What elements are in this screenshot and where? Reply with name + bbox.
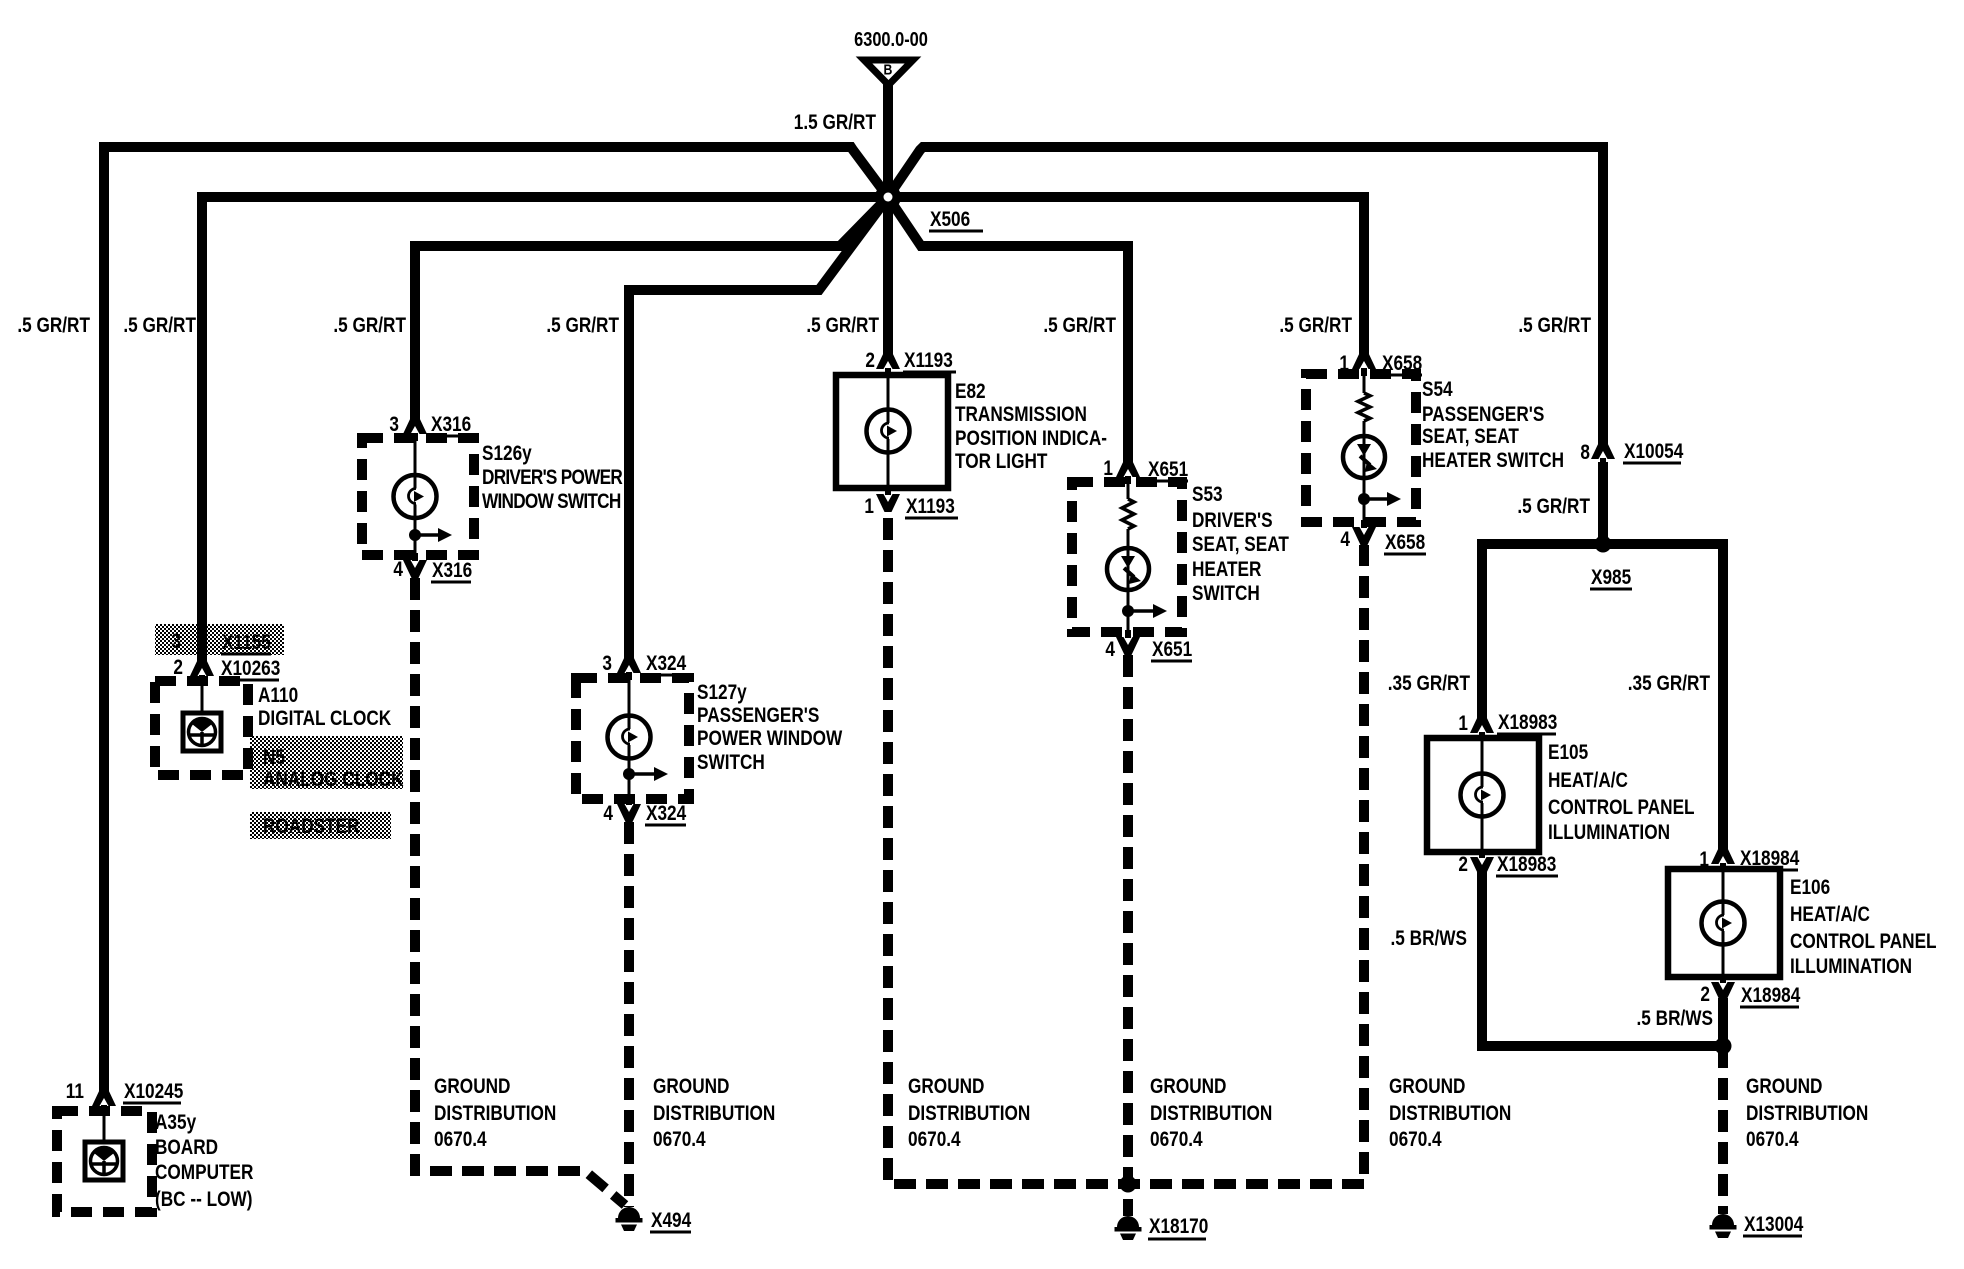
connector pin 4 X316 (bottom of S126y) (403, 560, 427, 578)
switch contact arrow S127y (623, 768, 635, 780)
svg-text:X324: X324 (646, 803, 686, 826)
wire splice to S126y (left, y246) (415, 197, 888, 420)
svg-text:3: 3 (171, 631, 181, 654)
svg-text:DISTRIBUTION: DISTRIBUTION (434, 1103, 556, 1126)
svg-text:ROADSTER: ROADSTER (263, 816, 360, 839)
svg-text:.5 GR/RT: .5 GR/RT (123, 315, 196, 338)
svg-text:X18984: X18984 (1741, 985, 1801, 1008)
svg-text:.5 GR/RT: .5 GR/RT (1518, 315, 1591, 338)
svg-text:8: 8 (1580, 442, 1590, 465)
svg-text:X10245: X10245 (124, 1081, 184, 1104)
svg-text:0670.4: 0670.4 (653, 1129, 706, 1152)
svg-text:DRIVER'S POWER: DRIVER'S POWER (482, 467, 623, 490)
switch S127y dashed box (576, 678, 689, 799)
svg-text:X1155: X1155 (222, 632, 271, 655)
highlight band ROADSTER (250, 812, 391, 839)
svg-text:X985: X985 (1591, 567, 1631, 590)
lamp unit E82 solid box (836, 375, 948, 488)
svg-text:.35 GR/RT: .35 GR/RT (1628, 673, 1710, 696)
connector pin 1 X1193 (bottom of E82) (876, 494, 900, 512)
connector pin 1 X658 (top of S54) (1352, 351, 1376, 369)
svg-text:GROUND: GROUND (1389, 1076, 1466, 1099)
switch S126y dashed box (362, 438, 474, 555)
svg-text:POSITION INDICA-: POSITION INDICA- (955, 428, 1107, 451)
svg-text:2: 2 (1458, 854, 1468, 877)
connector pin 11 X10245 (92, 1088, 116, 1106)
svg-text:X651: X651 (1152, 639, 1192, 662)
wire splice to S127y (left, y290) (629, 197, 888, 659)
svg-text:DISTRIBUTION: DISTRIBUTION (1746, 1103, 1868, 1126)
svg-text:GROUND: GROUND (1746, 1076, 1823, 1099)
svg-text:N5: N5 (263, 747, 285, 770)
wire splice X985 horizontal (1482, 539, 1723, 549)
svg-text:COMPUTER: COMPUTER (155, 1162, 254, 1185)
svg-text:SWITCH: SWITCH (1192, 583, 1260, 606)
svg-text:ILLUMINATION: ILLUMINATION (1548, 822, 1670, 845)
connector pin 1 X18984 (top of E106) (1711, 846, 1735, 864)
connector pin 2 X1193 (top of E82) (876, 351, 900, 369)
svg-text:ILLUMINATION: ILLUMINATION (1790, 956, 1912, 979)
svg-text:A110: A110 (258, 685, 298, 708)
svg-text:X18983: X18983 (1498, 712, 1557, 735)
switch S54 dashed box (1306, 374, 1416, 522)
svg-text:DISTRIBUTION: DISTRIBUTION (1389, 1103, 1511, 1126)
lamp in S127y (608, 716, 651, 759)
wire .5 GR/RT X10054 to splice X985 (1598, 462, 1608, 544)
power feed triangle B (864, 60, 913, 85)
svg-text:SWITCH: SWITCH (697, 752, 765, 775)
splice X506 junction (875, 184, 901, 210)
svg-text:S53: S53 (1192, 484, 1223, 507)
svg-text:.5 BR/WS: .5 BR/WS (1637, 1008, 1714, 1031)
wire inside E82 (887, 375, 890, 488)
ground wire from S127y pin 4 to X494 (624, 822, 634, 1207)
wire inside A35y (103, 1111, 106, 1142)
svg-text:BOARD: BOARD (155, 1137, 218, 1160)
svg-text:PASSENGER'S: PASSENGER'S (697, 705, 820, 728)
svg-text:A35y: A35y (155, 1112, 196, 1135)
svg-text:S127y: S127y (697, 682, 747, 705)
svg-text:1.5 GR/RT: 1.5 GR/RT (794, 112, 876, 135)
svg-text:DIGITAL CLOCK: DIGITAL CLOCK (258, 708, 391, 731)
lamp unit E106 solid box (1668, 869, 1780, 977)
ground X494 (618, 1207, 640, 1218)
wire .5 BR/WS E105 to junction (1482, 871, 1723, 1046)
switch contact arrow S54 (1358, 493, 1370, 505)
board computer A35y dashed box (57, 1111, 152, 1212)
svg-text:DISTRIBUTION: DISTRIBUTION (1150, 1103, 1272, 1126)
svg-text:2: 2 (1700, 984, 1710, 1007)
ground X18170 (1117, 1216, 1139, 1227)
wire splice to digital clock (left, y197) (202, 197, 888, 662)
svg-text:S54: S54 (1422, 379, 1453, 402)
svg-text:E106: E106 (1790, 877, 1830, 900)
wire inside S127y (628, 678, 631, 799)
svg-text:X18170: X18170 (1149, 1216, 1208, 1239)
svg-text:2: 2 (865, 350, 875, 373)
svg-text:PASSENGER'S: PASSENGER'S (1422, 404, 1545, 427)
svg-text:4: 4 (1340, 529, 1350, 552)
svg-text:.5 BR/WS: .5 BR/WS (1391, 928, 1468, 951)
svg-text:CONTROL PANEL: CONTROL PANEL (1790, 931, 1937, 954)
lamp in E82 (867, 410, 910, 453)
wire splice to board computer (left, y147) (104, 147, 888, 1092)
svg-text:GROUND: GROUND (908, 1076, 985, 1099)
clock A110 dashed box (155, 681, 248, 775)
svg-text:X1193: X1193 (906, 496, 955, 519)
svg-text:X506: X506 (930, 209, 970, 232)
svg-text:1: 1 (864, 496, 874, 519)
svg-text:TOR LIGHT: TOR LIGHT (955, 451, 1048, 474)
ground X13004 (1712, 1214, 1734, 1225)
svg-text:E105: E105 (1548, 742, 1588, 765)
ground wire from E82 pin 1 (888, 518, 1364, 1184)
svg-text:X18983: X18983 (1497, 854, 1556, 877)
connector pin 2 X18983 (bottom of E105) (1470, 857, 1494, 875)
svg-text:.5 GR/RT: .5 GR/RT (333, 315, 406, 338)
svg-text:CONTROL PANEL: CONTROL PANEL (1548, 797, 1695, 820)
connector pin 4 X324 (bottom of S127y) (617, 804, 641, 822)
wire splice to S53 (right, y246) (888, 197, 1128, 463)
svg-text:S126y: S126y (482, 443, 532, 466)
svg-text:SEAT, SEAT: SEAT, SEAT (1422, 426, 1519, 449)
svg-text:(BC -- LOW): (BC -- LOW) (155, 1189, 252, 1212)
svg-text:X13004: X13004 (1744, 1214, 1804, 1237)
connector pin 3 X324 (top of S127y) (617, 655, 641, 673)
clock icon A110 (183, 713, 221, 751)
svg-text:3: 3 (602, 653, 612, 676)
svg-text:WINDOW SWITCH: WINDOW SWITCH (482, 491, 621, 514)
svg-text:0670.4: 0670.4 (1746, 1129, 1799, 1152)
svg-text:GROUND: GROUND (653, 1076, 730, 1099)
svg-text:.5 GR/RT: .5 GR/RT (1517, 496, 1590, 519)
connector pin 2 X18984 (bottom of E106) (1711, 982, 1735, 1000)
svg-text:TRANSMISSION: TRANSMISSION (955, 404, 1087, 427)
wire inside E105 (1481, 738, 1484, 852)
svg-text:.5 GR/RT: .5 GR/RT (546, 315, 619, 338)
switch contact arrow S126y (409, 529, 421, 541)
svg-text:B: B (884, 61, 893, 77)
svg-text:POWER WINDOW: POWER WINDOW (697, 728, 843, 751)
connector pin 4 X651 (bottom of S53) (1116, 637, 1140, 655)
svg-text:HEATER: HEATER (1192, 559, 1262, 582)
wire splice to E82 (down) (883, 197, 893, 357)
svg-text:X10054: X10054 (1624, 441, 1684, 464)
resistor in S54 (1358, 393, 1370, 421)
svg-text:4: 4 (393, 559, 403, 582)
lamp in E106 (1702, 902, 1745, 945)
svg-text:HEATER SWITCH: HEATER SWITCH (1422, 450, 1564, 473)
resistor in S53 (1122, 499, 1134, 529)
svg-text:GROUND: GROUND (1150, 1076, 1227, 1099)
junction dot BR/WS net (1715, 1038, 1732, 1055)
clock icon A35y (85, 1142, 123, 1180)
svg-text:.35 GR/RT: .35 GR/RT (1388, 673, 1470, 696)
connector pin 4 X658 (bottom of S54) (1352, 527, 1376, 545)
svg-text:X1193: X1193 (904, 350, 953, 373)
connector pin 8 X10054 (1591, 441, 1615, 459)
lamp in S126y (394, 475, 437, 518)
connector pin 2 X10263 (190, 658, 214, 676)
junction dot ground net X18170 (1120, 1176, 1137, 1193)
svg-text:GROUND: GROUND (434, 1076, 511, 1099)
svg-text:SEAT, SEAT: SEAT, SEAT (1192, 534, 1289, 557)
wire E106 pin 2 to junction (1718, 998, 1728, 1046)
svg-text:X494: X494 (651, 1210, 691, 1233)
wire inside S54 (1363, 374, 1366, 522)
lamp unit E105 solid box (1427, 738, 1539, 852)
highlight band connector 3 X1155 (155, 624, 284, 655)
connector pin 1 X651 (top of S53) (1116, 459, 1140, 477)
indicator lamp in S54 (1343, 436, 1385, 478)
svg-text:.5 GR/RT: .5 GR/RT (1279, 315, 1352, 338)
svg-text:X316: X316 (432, 560, 472, 583)
svg-text:X324: X324 (646, 653, 686, 676)
svg-text:E82: E82 (955, 381, 986, 404)
lamp in E105 (1461, 774, 1504, 817)
wire splice to S54 (right, y197) (888, 197, 1364, 355)
svg-text:0670.4: 0670.4 (434, 1129, 487, 1152)
svg-text:0670.4: 0670.4 (908, 1129, 961, 1152)
highlight band N5 ANALOG CLOCK (250, 736, 403, 789)
wire X985 to E106 (1718, 539, 1728, 849)
wire splice to X10054 (right, y147) (888, 147, 1603, 444)
svg-text:6300.0-00: 6300.0-00 (854, 27, 928, 50)
ground wire from S126y pin 4 (415, 578, 625, 1205)
ground wire from BR/WS junction to X13004 (1718, 1046, 1728, 1214)
svg-text:.5 GR/RT: .5 GR/RT (17, 315, 90, 338)
wire 1.5 GR/RT from fuse B down to splice (883, 84, 893, 197)
svg-text:X658: X658 (1385, 532, 1425, 555)
svg-text:ANALOG CLOCK: ANALOG CLOCK (263, 769, 404, 792)
wire inside E106 (1722, 869, 1725, 977)
svg-text:1: 1 (1458, 713, 1468, 736)
svg-text:0670.4: 0670.4 (1150, 1129, 1203, 1152)
svg-text:4: 4 (1105, 639, 1115, 662)
svg-text:HEAT/A/C: HEAT/A/C (1790, 904, 1870, 927)
indicator lamp in S53 (1107, 548, 1149, 590)
splice X985 junction dot (1595, 536, 1612, 553)
svg-text:DRIVER'S: DRIVER'S (1192, 510, 1273, 533)
connector pin 1 X18983 (top of E105) (1470, 715, 1494, 733)
wire X985 to E105 (1477, 539, 1487, 720)
svg-text:DISTRIBUTION: DISTRIBUTION (908, 1103, 1030, 1126)
ground wire from S53 pin 4 to X18170 (1123, 655, 1133, 1216)
svg-text:.5 GR/RT: .5 GR/RT (1043, 315, 1116, 338)
svg-text:DISTRIBUTION: DISTRIBUTION (653, 1103, 775, 1126)
switch S53 dashed box (1072, 482, 1182, 632)
wire inside A110 (201, 681, 204, 712)
svg-text:11: 11 (66, 1081, 84, 1104)
svg-text:4: 4 (603, 803, 613, 826)
svg-text:0670.4: 0670.4 (1389, 1129, 1442, 1152)
wire inside S53 (1127, 482, 1130, 632)
svg-text:HEAT/A/C: HEAT/A/C (1548, 770, 1628, 793)
connector pin 3 X316 (top of S126y) (403, 416, 427, 434)
wire inside S126y (414, 438, 417, 555)
svg-text:.5 GR/RT: .5 GR/RT (806, 315, 879, 338)
switch contact arrow S53 (1122, 605, 1134, 617)
